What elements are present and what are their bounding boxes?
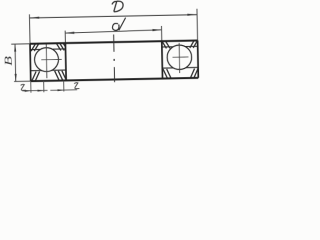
- arrow B top: [14, 44, 16, 52]
- arrow B bottom: [15, 74, 17, 82]
- chamfer extension tick 1: [30, 81, 32, 92]
- extension line B top: [11, 43, 30, 45]
- extension line d left: [64, 31, 66, 43]
- label D: [112, 1, 123, 12]
- label r right: [74, 83, 79, 89]
- bore edge left block: [64, 43, 67, 80]
- upper race line right block: [162, 45, 198, 48]
- svg-text:B: B: [2, 55, 14, 66]
- lower race line right block: [162, 66, 198, 69]
- hatch outer ring bottom-left cell: [32, 71, 40, 81]
- wire dimension line D: [30, 15, 198, 18]
- ball left: [34, 47, 58, 71]
- chamfer arrow 2: [38, 89, 44, 91]
- bottom face outline: [31, 78, 199, 81]
- hatch inner ring bottom-left cell (right block): [163, 69, 171, 79]
- hatch inner ring bottom-right cell: [55, 71, 66, 81]
- chamfer extension tick 2: [43, 81, 45, 92]
- extension line D right: [196, 9, 199, 41]
- chamfer arrow 1: [25, 90, 31, 92]
- hatch outer ring top-left cell: [31, 44, 39, 51]
- lower race line left block: [31, 69, 66, 72]
- arrow D left: [29, 17, 39, 19]
- ball left horizontal center line: [41, 58, 61, 60]
- hatch inner ring top-right cell: [57, 43, 66, 50]
- chamfer arrow 3: [58, 89, 64, 91]
- wire dimension line d: [65, 30, 161, 33]
- arrow D right: [187, 13, 197, 15]
- bore edge right block: [161, 41, 164, 78]
- upper race line left block: [30, 48, 65, 51]
- label d: [112, 18, 126, 31]
- ball left vertical center line: [45, 44, 48, 78]
- hatch inner ring top-left cell (right block): [162, 41, 170, 48]
- arrow d left: [65, 32, 74, 34]
- outer diameter edge right: [197, 40, 200, 77]
- chamfer dimension line segment 1: [22, 89, 47, 91]
- extension line d right: [160, 26, 162, 41]
- ball right: [167, 45, 192, 70]
- outer diameter edge left: [29, 44, 32, 81]
- hatch outer ring bottom-right cell (right block): [190, 69, 198, 78]
- chamfer extension tick 3: [63, 81, 65, 92]
- wire dimension line B: [14, 44, 17, 81]
- extension line B bottom: [14, 80, 31, 82]
- top face outline: [30, 40, 198, 43]
- center axis line (dash-dot): [113, 34, 116, 82]
- arrow d right: [152, 29, 161, 31]
- ball right vertical center line: [178, 43, 181, 73]
- ball right horizontal center line: [173, 56, 189, 58]
- extension line D left: [28, 14, 31, 43]
- label r left: [21, 84, 26, 90]
- chamfer dimension line segment 2: [50, 89, 77, 92]
- hatch outer ring top-right cell (right block): [190, 41, 198, 48]
